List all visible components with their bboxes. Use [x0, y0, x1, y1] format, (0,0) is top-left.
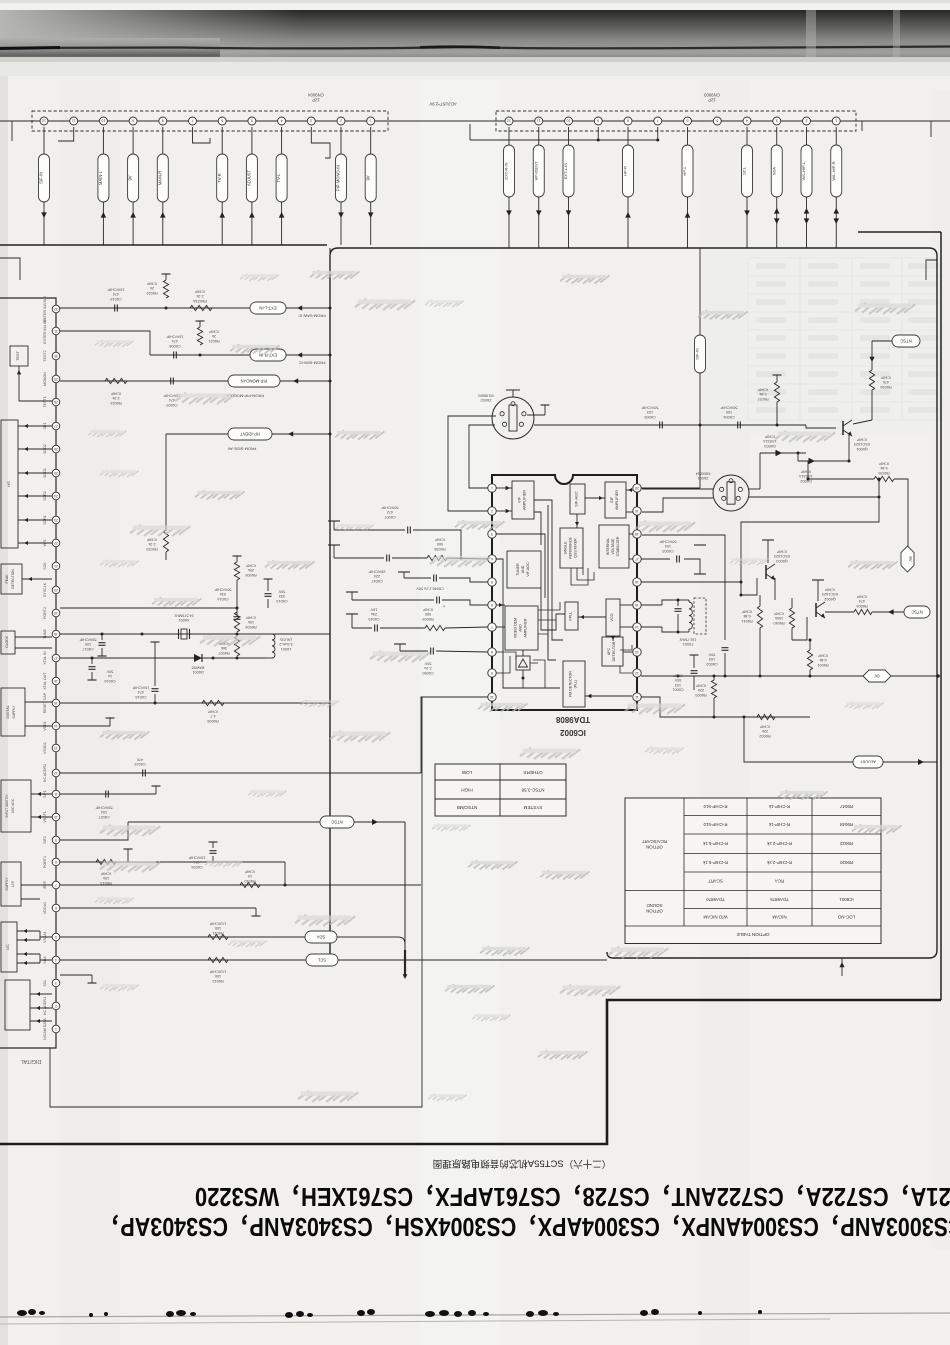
svg-text:5.6k: 5.6k — [759, 392, 766, 396]
svg-text:VDDA1: VDDA1 — [43, 902, 47, 914]
block INPUT SWITCH AGC ADC — [1, 780, 31, 832]
svg-text:R6033: R6033 — [146, 547, 157, 551]
connector pin label pill 9V — [132, 127, 134, 154]
wire row PIP-MONO-IN — [60, 380, 228, 382]
IC6002 pin 17 — [633, 555, 641, 563]
svg-text:2.2k: 2.2k — [148, 542, 155, 546]
svg-text:R9020: R9020 — [839, 860, 852, 865]
svg-text:TDA9875: TDA9875 — [770, 897, 789, 902]
block VIDEO DEM AND AMPLIFIER — [505, 606, 538, 650]
connector CN9004 pin 1 — [367, 117, 375, 125]
svg-text:12P: 12P — [312, 98, 320, 103]
svg-text:ICHIP: ICHIP — [207, 710, 218, 714]
svg-text:SIF2: SIF2 — [43, 836, 47, 844]
svg-text:C6050: C6050 — [422, 671, 433, 675]
svg-text:560: 560 — [437, 542, 443, 546]
page border right edge — [858, 231, 941, 233]
svg-text:9V: 9V — [128, 175, 133, 180]
svg-text:25: 25 — [54, 471, 58, 475]
block I2C interface — [1, 922, 17, 972]
svg-text:R6005: R6005 — [245, 573, 256, 577]
resistor R6008 4.7 — [202, 700, 224, 705]
svg-text:TEST1: TEST1 — [43, 396, 47, 407]
svg-text:20k: 20k — [248, 568, 254, 572]
capacitor C6004 100 — [737, 422, 739, 429]
demodulator symbol — [516, 656, 530, 670]
wire row EXT-L-IN — [60, 307, 250, 309]
svg-text:R9047: R9047 — [839, 804, 852, 809]
connector pin label pill SDA — [776, 127, 778, 145]
svg-text:474: 474 — [138, 690, 144, 694]
svg-text:R6011: R6011 — [213, 931, 224, 935]
resistor R6024 2.2k — [105, 378, 127, 383]
IC6002 pin 9 — [488, 669, 496, 677]
svg-text:ICHIP: ICHIP — [110, 392, 121, 396]
wire row SCL — [60, 959, 306, 961]
svg-text:474: 474 — [172, 339, 178, 343]
block SIF-AGC — [570, 484, 585, 514]
svg-text:VIF: VIF — [518, 496, 522, 503]
svg-text:27: 27 — [54, 424, 58, 428]
capacitor C6016 1u 50V — [91, 658, 93, 664]
wire row y717 — [671, 716, 810, 718]
left frame stub hook — [0, 258, 20, 280]
svg-text:CN9004: CN9004 — [308, 92, 324, 97]
capacitor C6018 474 — [154, 642, 156, 648]
svg-text:R6004: R6004 — [856, 604, 867, 608]
wire HS to pin — [18, 425, 52, 427]
svg-text:24.576MHz: 24.576MHz — [174, 614, 194, 618]
option table — [625, 798, 881, 944]
svg-text:16V/CHIP: 16V/CHIP — [188, 856, 205, 860]
IC pin 16 XTAL OUT — [52, 677, 60, 685]
connector CN9004 pin 3 — [307, 117, 315, 125]
svg-text:R6022: R6022 — [146, 291, 157, 295]
svg-text:50V: 50V — [674, 678, 681, 682]
svg-text:5: 5 — [251, 119, 253, 123]
svg-text:Q6001: Q6001 — [856, 447, 867, 451]
svg-text:NICAM: NICAM — [772, 915, 786, 920]
IC pin 17 XTAL IN — [52, 654, 60, 662]
svg-text:R6041: R6041 — [741, 619, 752, 623]
svg-text:50V/CHIP: 50V/CHIP — [720, 406, 737, 410]
svg-text:2.2u: 2.2u — [424, 666, 431, 670]
block TEST — [10, 346, 28, 366]
resistor R6041 6.8k — [757, 606, 762, 628]
svg-text:RCA/SCART: RCA/SCART — [642, 839, 668, 844]
wire can X6002 pin to IC pin1 — [469, 425, 495, 488]
svg-text:AMPLIFIER: AMPLIFIER — [524, 618, 528, 637]
VCO tank circuit T6001 118.7MHz — [641, 604, 662, 606]
svg-text:11: 11 — [635, 695, 639, 699]
wire row NC ADDR1 stub — [60, 974, 92, 976]
resistor R6011 100 — [208, 934, 228, 939]
svg-text:SCK: SCK — [43, 562, 47, 570]
svg-text:474: 474 — [169, 398, 175, 402]
svg-text:1SS314: 1SS314 — [799, 474, 813, 478]
IC pin 25 SDO1 — [52, 469, 60, 477]
svg-text:(AL03): (AL03) — [280, 638, 292, 642]
svg-text:9V: 9V — [908, 556, 913, 561]
IC pin 19 PORT2 — [52, 609, 60, 617]
resistor R6040 100k — [789, 608, 794, 628]
IC pin 28 TEST1 — [52, 398, 60, 406]
model list text line 1 — [99, 1211, 950, 1240]
svg-text:ICHIP: ICHIP — [824, 588, 835, 592]
svg-text:XTAL IN: XTAL IN — [43, 651, 47, 665]
svg-text:333: 333 — [279, 594, 285, 598]
svg-text:PIP-MONO-IN: PIP-MONO-IN — [241, 378, 268, 383]
connector pin label pill HP-IDENT — [538, 127, 540, 145]
paper tone bands — [60, 80, 120, 1345]
svg-text:15: 15 — [54, 701, 58, 705]
wire Q6001 emitter to 9V rail — [825, 461, 827, 479]
svg-text:103: 103 — [647, 410, 653, 414]
svg-text:TEST: TEST — [16, 350, 20, 360]
block HS — [1, 420, 18, 548]
svg-text:VCO: VCO — [610, 613, 614, 621]
svg-text:50V/CHIP: 50V/CHIP — [95, 806, 112, 810]
svg-text:ICHIP: ICHIP — [245, 616, 256, 620]
svg-text:RESET CAP: RESET CAP — [43, 692, 47, 713]
svg-text:OPTION: OPTION — [646, 909, 663, 914]
svg-text:R6001: R6001 — [817, 663, 828, 667]
capacitor C6009 — [170, 378, 172, 385]
connector CN9003 pin 3 — [773, 117, 781, 125]
svg-text:CS721A，CS722A，CS722ANT，CS728，C: CS721A，CS722A，CS722ANT，CS728，CS761APFX，C… — [195, 1182, 950, 1211]
svg-text:1SS314: 1SS314 — [763, 439, 777, 443]
svg-text:1: 1 — [491, 486, 493, 490]
svg-text:MAIN-R: MAIN-R — [157, 171, 162, 186]
connector pin label pill W/L-H/P-R — [835, 127, 837, 145]
pill SCL — [306, 954, 338, 966]
IC pin 9 SIF2 — [52, 836, 60, 844]
wire IC pin16 to Q6003 — [641, 581, 741, 583]
svg-text:15: 15 — [635, 603, 639, 607]
block CLOCK — [1, 631, 15, 654]
svg-text:KSC1623: KSC1623 — [822, 592, 838, 596]
wire top bus — [0, 120, 950, 122]
svg-text:C6027: C6027 — [98, 815, 109, 819]
svg-text:R6008: R6008 — [207, 719, 218, 723]
diode D6002 1SS314 — [798, 460, 849, 462]
capacitor C6003 104 — [641, 558, 670, 560]
svg-text:AMPLIFIER: AMPLIFIER — [523, 490, 527, 510]
wire row SDA — [60, 936, 305, 938]
svg-text:4: 4 — [491, 557, 493, 561]
svg-text:ICHIP: ICHIP — [764, 435, 775, 439]
svg-text:D6003: D6003 — [764, 444, 775, 448]
svg-text:2: 2 — [55, 1004, 57, 1008]
svg-text:8: 8 — [491, 650, 493, 654]
svg-text:R-CHIP-1k: R-CHIP-1k — [768, 804, 790, 809]
svg-text:W/L-H/P-L: W/L-H/P-L — [801, 161, 806, 180]
capacitor C6027 104 — [105, 791, 107, 798]
svg-text:1: 1 — [370, 119, 372, 123]
svg-text:10: 10 — [101, 119, 105, 123]
svg-text:ICHIP: ICHIP — [800, 470, 811, 474]
svg-text:R9022: R9022 — [839, 841, 852, 846]
svg-text:IC6002: IC6002 — [560, 728, 586, 737]
svg-text:CLOCK: CLOCK — [5, 635, 9, 647]
connector CN9004 pin 11 — [70, 117, 78, 125]
IC pin 14 VDD1 — [52, 722, 60, 730]
svg-text:50V/CHIP: 50V/CHIP — [659, 540, 676, 544]
svg-text:X6001: X6001 — [179, 618, 190, 622]
svg-text:4: 4 — [281, 119, 283, 123]
svg-text:C6026: C6026 — [191, 865, 202, 869]
svg-text:LOC-NO: LOC-NO — [837, 915, 855, 920]
wire SIF row y425 — [534, 424, 806, 426]
svg-text:3: 3 — [310, 119, 312, 123]
svg-text:VIF-AGC: VIF-AGC — [526, 562, 530, 577]
connector pin label pill TV-L — [281, 127, 283, 154]
capacitor C6048 2.2u 50V — [351, 592, 353, 600]
connector pin label pill EXT-L-IN — [568, 127, 570, 145]
svg-text:SINGLE: SINGLE — [564, 541, 568, 555]
svg-text:17: 17 — [54, 656, 58, 660]
svg-text:C6048 2.2u 50V: C6048 2.2u 50V — [416, 587, 444, 591]
svg-text:50V: 50V — [708, 653, 715, 657]
svg-text:6: 6 — [687, 119, 689, 123]
IC U6002 TDA9808 body — [492, 475, 637, 710]
svg-text:ADJUST: ADJUST — [860, 760, 876, 765]
svg-text:NC ADDR1: NC ADDR1 — [43, 997, 47, 1015]
wire row PORT2 PLL — [60, 607, 237, 609]
svg-text:C6017: C6017 — [82, 647, 93, 651]
svg-text:FPLL: FPLL — [569, 611, 573, 620]
svg-text:C6009: C6009 — [166, 403, 177, 407]
svg-text:R6035: R6035 — [878, 471, 889, 475]
connector CN9004 pin 2 — [337, 117, 345, 125]
capacitor C6002 103 — [722, 647, 729, 649]
svg-text:C6013: C6013 — [276, 599, 287, 603]
svg-text:FROM-SAW-IC: FROM-SAW-IC — [298, 314, 325, 319]
connector CN9003 pin 6 — [684, 117, 692, 125]
svg-text:VSSD1: VSSD1 — [43, 742, 47, 754]
connector pin label pill SIF-IN — [43, 127, 45, 154]
svg-text:1/10CHIP: 1/10CHIP — [209, 922, 226, 926]
wire pin20 to can X6001 — [642, 488, 713, 490]
IC6002 pin 1 — [488, 484, 496, 492]
svg-text:26: 26 — [54, 447, 58, 451]
connector CN9003 pin 5 — [713, 117, 721, 125]
svg-text:50V/CHIP: 50V/CHIP — [214, 588, 231, 592]
svg-text:47k: 47k — [883, 380, 889, 384]
svg-text:ICHIP: ICHIP — [695, 684, 706, 688]
resistor R6033 2.2k — [163, 530, 168, 552]
block SIF AMPLIFIER — [605, 482, 626, 518]
capacitor C6050 2.2u 50V — [399, 644, 401, 651]
svg-text:R-CHIP-2.2k: R-CHIP-2.2k — [766, 860, 792, 865]
pill NTSC top right — [892, 335, 920, 347]
svg-text:7: 7 — [491, 625, 493, 629]
svg-text:R-CHIP-510: R-CHIP-510 — [703, 804, 727, 809]
stub wire pin 11 — [58, 127, 74, 141]
IC pin 7 /REF — [52, 881, 60, 889]
svg-text:SCART: SCART — [708, 879, 723, 884]
svg-text:9: 9 — [132, 119, 134, 123]
block VIF AMPLIFIER — [512, 481, 534, 519]
resistor R6037 5.6k — [776, 375, 778, 382]
wire HS to pin — [18, 495, 52, 497]
svg-text:EXT-L-IN: EXT-L-IN — [259, 305, 276, 310]
svg-text:MONON: MONON — [43, 372, 47, 386]
resistor R6006 10k — [234, 612, 239, 632]
IC6002 pin 10 — [488, 693, 496, 701]
capacitor C6017 100 — [101, 634, 103, 640]
svg-text:ICHIP: ICHIP — [208, 330, 219, 334]
connector CN9003 pin 10 — [565, 117, 573, 125]
svg-text:TUNER: TUNER — [516, 563, 520, 576]
svg-text:28V/CHIP: 28V/CHIP — [368, 570, 385, 574]
svg-text:20: 20 — [635, 486, 639, 490]
svg-text:8: 8 — [55, 860, 57, 864]
svg-text:FM DETECTOR: FM DETECTOR — [569, 671, 573, 697]
svg-text:AND: AND — [521, 565, 525, 573]
svg-text:图 CS3003ANP，CS3004ANPX，CS3004A: 图 CS3003ANP，CS3004ANPX，CS3004APX，CS3004X… — [99, 1211, 950, 1240]
svg-text:SIF-AGC: SIF-AGC — [575, 491, 579, 507]
svg-text:ICHIP: ICHIP — [757, 388, 768, 392]
IC6002 pin 3 — [488, 530, 496, 538]
svg-text:PORT2: PORT2 — [43, 607, 47, 619]
block SINGLE REFERENCE QSS MIXER — [560, 528, 583, 568]
connector CN9004 pin 6 — [218, 117, 226, 125]
svg-text:C6008: C6008 — [169, 344, 180, 348]
svg-text:3: 3 — [55, 981, 57, 985]
IC pin 15 RESET CAP — [52, 699, 60, 707]
wire pin20 to SIF-IN riser — [641, 487, 700, 489]
svg-text:100: 100 — [726, 410, 732, 414]
connector pin label pill SCL — [746, 127, 748, 145]
svg-text:103: 103 — [709, 657, 715, 661]
svg-text:STABILIZER: STABILIZER — [616, 536, 620, 556]
svg-text:10k: 10k — [103, 876, 109, 880]
svg-text:+: + — [442, 603, 445, 608]
svg-text:DETECTION: DETECTION — [11, 569, 15, 589]
svg-text:1/10CHIP: 1/10CHIP — [209, 970, 226, 974]
connector pin label pill MAIN-R — [162, 127, 164, 154]
svg-text:TDA9808: TDA9808 — [555, 715, 590, 724]
svg-text:ICHIP: ICHIP — [146, 538, 157, 542]
svg-text:（二十六）SCT55A机芯的音频电路原理图: （二十六）SCT55A机芯的音频电路原理图 — [433, 1158, 611, 1170]
svg-text:4: 4 — [55, 958, 57, 962]
IC pin 29 MONON — [52, 375, 60, 383]
resistor R6009 560 and capacitor C6049 — [351, 614, 353, 628]
svg-text:HIGH: HIGH — [461, 787, 472, 792]
wire HS to pin — [18, 519, 52, 521]
svg-text:L6001: L6001 — [281, 647, 292, 651]
can X6002 side T-bar — [527, 414, 545, 416]
svg-text:C6016: C6016 — [104, 679, 115, 683]
capacitor C6001 103 50V — [693, 662, 695, 668]
svg-text:9: 9 — [597, 119, 599, 123]
resistor R6021 2k — [197, 327, 202, 345]
svg-text:C6018: C6018 — [135, 695, 146, 699]
svg-text:5.6k: 5.6k — [880, 466, 887, 470]
connector pin label pill HP-L — [687, 127, 689, 145]
svg-text:SIF-IN: SIF-IN — [39, 172, 44, 184]
left section bottom frame — [50, 697, 422, 1107]
block INTERNAL VOLTAGE STABILIZER — [599, 525, 629, 568]
svg-text:(PLL): (PLL) — [574, 680, 578, 689]
svg-text:I2C: I2C — [6, 944, 10, 950]
svg-text:INTERNAL: INTERNAL — [606, 538, 610, 555]
svg-text:R-CHIP-5.1k: R-CHIP-5.1k — [702, 860, 728, 865]
connector pin label pill TV-R — [221, 127, 223, 154]
IC6002 pin 18 — [633, 530, 641, 538]
svg-text:C6049: C6049 — [368, 617, 379, 621]
wire can X6002 pin to IC pin2 — [448, 416, 496, 511]
resistor R6023 2.2k — [190, 305, 212, 310]
svg-text:SDA: SDA — [316, 934, 325, 939]
wire row SIF1 long — [60, 772, 421, 774]
svg-text:NTSC: NTSC — [900, 338, 911, 343]
IC6002 pin 20 — [633, 484, 641, 492]
svg-text:OPTION TABLE: OPTION TABLE — [736, 932, 769, 937]
wire row XTAL OUT — [60, 657, 265, 659]
hex tag 9V vertical — [901, 546, 914, 572]
svg-text:23u: 23u — [371, 612, 377, 616]
svg-text:16V/CHIP: 16V/CHIP — [132, 686, 149, 690]
IC6002 pin 2 — [488, 507, 496, 515]
svg-text:7: 7 — [192, 119, 194, 123]
svg-text:12: 12 — [54, 771, 58, 775]
ghost bleed-through of reverse page table — [748, 258, 940, 420]
svg-text:4: 4 — [746, 119, 748, 123]
capacitor C6008 — [173, 352, 175, 359]
transistor Q6002 KSC1623 — [815, 603, 817, 617]
svg-text:100: 100 — [85, 642, 91, 646]
svg-text:10k: 10k — [248, 620, 254, 624]
IC pin 2 NC ADDR1 — [52, 1002, 60, 1010]
svg-text:17: 17 — [635, 557, 639, 561]
svg-text:50V: 50V — [424, 662, 431, 666]
svg-text:19: 19 — [54, 611, 58, 615]
discriminator can X6002 M1966M — [492, 397, 534, 439]
svg-text:8: 8 — [627, 119, 629, 123]
wire HP-IDENT to R6033 — [165, 434, 167, 530]
svg-text:ADJUST*2.9V: ADJUST*2.9V — [429, 101, 456, 106]
block DIGITAL SUPPLY — [1, 688, 25, 736]
connector CN9004 pin 7 — [189, 117, 197, 125]
svg-text:INPUT SWITCH: INPUT SWITCH — [5, 794, 9, 818]
svg-text:SYSTEM: SYSTEM — [523, 805, 542, 810]
svg-text:Z6002: Z6002 — [480, 398, 491, 403]
crystal X6001 24.576MHz — [181, 629, 187, 639]
svg-text:R6024: R6024 — [110, 401, 121, 405]
svg-text:REFERENCE: REFERENCE — [569, 537, 573, 559]
IC6002 pin 5 — [488, 578, 496, 586]
svg-text:SCL: SCL — [43, 980, 47, 987]
IC pin 12 NC ADDR2 — [52, 769, 60, 777]
svg-text:AFC: AFC — [607, 648, 611, 656]
svg-text:1: 1 — [835, 119, 837, 123]
svg-text:3.3uH-2: 3.3uH-2 — [279, 642, 293, 646]
svg-text:32: 32 — [54, 307, 58, 311]
wire row EXT-R-IN — [60, 331, 150, 355]
svg-text:EXTER IN/LINE: EXTER IN/LINE — [43, 318, 47, 344]
svg-text:103: 103 — [675, 683, 681, 687]
svg-text:100: 100 — [215, 926, 221, 930]
svg-text:SUPPLY: SUPPLY — [5, 877, 9, 891]
svg-text:R-CHIP-1k: R-CHIP-1k — [768, 822, 790, 827]
svg-text:W/L-H/P-R: W/L-H/P-R — [831, 161, 836, 180]
svg-text:C6004: C6004 — [723, 415, 734, 419]
svg-text:50V/CHIP: 50V/CHIP — [79, 638, 96, 642]
svg-text:ICHIP: ICHIP — [434, 538, 445, 542]
svg-text:HS: HS — [6, 481, 11, 487]
